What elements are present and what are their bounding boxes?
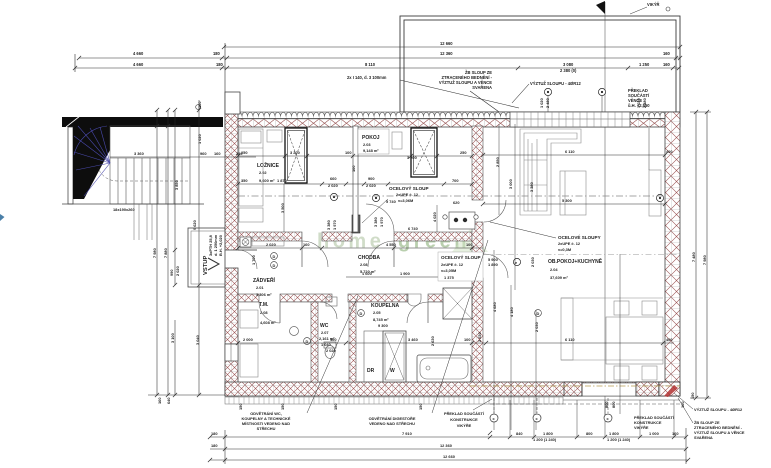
svg-text:1 600: 1 600: [362, 271, 372, 276]
svg-text:v=0,3M: v=0,3M: [558, 247, 571, 252]
washer W koupelna: [383, 331, 406, 382]
svg-text:800: 800: [604, 402, 609, 409]
door wc: [320, 302, 337, 319]
axis dash line lower: [483, 254, 680, 256]
svg-text:150: 150: [333, 404, 338, 411]
svg-text:1 200 (1 240): 1 200 (1 240): [533, 437, 557, 442]
door pokoj: [366, 204, 394, 232]
stair dim line: [110, 156, 256, 158]
svg-text:2.05: 2.05: [373, 310, 381, 315]
door tm: [259, 302, 280, 323]
svg-text:1 000: 1 000: [649, 431, 659, 436]
svg-text:100: 100: [464, 337, 471, 342]
watermark home green: [317, 231, 470, 253]
dormer window band in top wall: [510, 112, 630, 127]
room obyvak: [548, 257, 603, 280]
svg-text:D: D: [273, 263, 276, 268]
building corner box above wall: [225, 92, 240, 114]
vstup chevron: [208, 258, 219, 270]
bottom wall gap terrace: [582, 383, 636, 396]
paving band below wall: [225, 397, 563, 404]
svg-text:150: 150: [238, 404, 243, 411]
bed loznice: [239, 129, 263, 206]
stair left wall: [68, 127, 73, 204]
svg-text:VÝZTUŽ SLOUPU - 4ØR12: VÝZTUŽ SLOUPU - 4ØR12: [530, 81, 581, 86]
dryer DR: [364, 331, 383, 382]
svg-text:OB.POKOJ+KUCHYNĚ: OB.POKOJ+KUCHYNĚ: [548, 257, 603, 265]
svg-text:660: 660: [330, 176, 337, 181]
north arrow flag: [596, 1, 605, 14]
svg-text:180: 180: [211, 443, 218, 448]
svg-text:18x190x260: 18x190x260: [113, 207, 135, 212]
svg-text:4 180: 4 180: [509, 307, 514, 317]
svg-text:12 360: 12 360: [440, 51, 453, 56]
watermark blue mark left edge: [0, 214, 5, 221]
svg-text:160: 160: [663, 62, 671, 67]
svg-text:1 200 (1 240): 1 200 (1 240): [607, 437, 631, 442]
wall H1 rooms/hall: [238, 232, 302, 241]
bottom outer line: [563, 399, 680, 401]
bottom wall pillar blocks: [564, 382, 582, 396]
cabinet pokoj: [392, 132, 402, 149]
svg-text:840: 840: [516, 431, 523, 436]
ochre axis dash line: [470, 385, 680, 387]
boiler tm: [290, 327, 299, 336]
small interior dim verticals: [284, 124, 649, 430]
extension verticals: [74, 54, 76, 72]
dormer centerline: [604, 2, 606, 418]
door koupelna: [407, 302, 428, 323]
corner red stripe: [664, 385, 678, 397]
room chodba: [358, 255, 380, 274]
svg-text:5 300: 5 300: [562, 198, 572, 203]
window W2 pokoj: [411, 128, 437, 177]
svg-text:12 360: 12 360: [440, 443, 452, 448]
toilet wc: [325, 346, 335, 359]
svg-text:2xUPE č. 12: 2xUPE č. 12: [396, 192, 419, 197]
bottom wall: [225, 382, 680, 396]
svg-text:4 660: 4 660: [133, 51, 144, 56]
svg-text:2 020: 2 020: [366, 183, 376, 188]
door chodba-pokoj side: [368, 241, 394, 267]
svg-text:W: W: [390, 368, 395, 374]
kitchen counter right: [649, 170, 661, 216]
door obyvak lower: [484, 254, 508, 278]
svg-text:180: 180: [213, 51, 221, 56]
entry door arc: [238, 250, 257, 269]
svg-text:2.04: 2.04: [550, 267, 558, 272]
svg-text:3 000: 3 000: [508, 179, 513, 189]
svg-text:2 030: 2 030: [534, 322, 539, 332]
rotated interior dims: [251, 157, 539, 346]
room tm: [259, 302, 276, 325]
svg-text:2 630: 2 630: [477, 332, 482, 342]
stair bottom line: [62, 203, 204, 205]
counter zadveri top: [252, 237, 284, 246]
top wall scallop row: [225, 112, 680, 119]
svg-text:1 250: 1 250: [639, 62, 650, 67]
window W1 loznice: [285, 128, 307, 183]
svg-text:VEDENO NAD STŘECHU: VEDENO NAD STŘECHU: [369, 421, 415, 426]
column symbol top 2: [598, 88, 605, 95]
svg-text:WC: WC: [320, 323, 329, 329]
svg-text:DR: DR: [367, 368, 375, 374]
svg-text:3 500: 3 500: [280, 203, 285, 213]
sink cabinet zadveri: [240, 237, 251, 247]
dining table: [606, 317, 663, 364]
stair treads: [118, 158, 182, 204]
svg-text:900: 900: [368, 176, 375, 181]
svg-text:7 980: 7 980: [152, 248, 157, 258]
svg-text:160: 160: [663, 51, 671, 56]
window in left wall: [225, 344, 238, 361]
coffee table obyvak: [560, 171, 586, 215]
washbasin wc: [326, 297, 337, 306]
svg-text:2 020: 2 020: [328, 183, 338, 188]
svg-text:800: 800: [586, 431, 593, 436]
svg-text:3 080: 3 080: [563, 62, 574, 67]
svg-text:150: 150: [418, 404, 423, 411]
svg-text:3 380: 3 380: [326, 220, 331, 230]
sofa obyvak L-shape: [520, 129, 581, 215]
svg-text:150: 150: [690, 393, 695, 400]
svg-text:1 700: 1 700: [251, 255, 256, 265]
svg-text:180: 180: [211, 431, 218, 436]
svg-text:1 870: 1 870: [277, 178, 287, 183]
svg-text:4 680: 4 680: [492, 302, 497, 312]
svg-text:3 460: 3 460: [408, 337, 418, 342]
svg-text:v=3,05M: v=3,05M: [441, 268, 456, 273]
svg-text:4 020: 4 020: [432, 212, 437, 222]
svg-text:1 800: 1 800: [543, 431, 553, 436]
svg-text:2 480: 2 480: [545, 98, 550, 108]
svg-text:2.03: 2.03: [363, 142, 371, 147]
svg-text:3 380: 3 380: [373, 217, 378, 227]
lines below stair: [134, 204, 152, 240]
svg-text:160: 160: [157, 398, 162, 405]
kitchen top edge lines: [561, 297, 663, 299]
svg-text:1 020: 1 020: [197, 134, 202, 144]
svg-text:620: 620: [453, 200, 460, 205]
svg-text:VIKÝŘ: VIKÝŘ: [647, 2, 660, 7]
svg-text:7 480: 7 480: [691, 252, 696, 262]
stair black wedge: [73, 127, 110, 199]
svg-text:9 620: 9 620: [192, 220, 197, 230]
left wall upper: [225, 112, 238, 250]
svg-text:6 110: 6 110: [565, 149, 575, 154]
svg-text:4 660: 4 660: [133, 62, 144, 67]
bottom right dim extension verticals: [510, 400, 674, 437]
svg-text:250: 250: [460, 150, 467, 155]
svg-text:3 200: 3 200: [290, 150, 300, 155]
svg-text:9,148 m²: 9,148 m²: [363, 148, 379, 153]
top wall hatch row: [225, 119, 680, 128]
kitchen island: [561, 298, 573, 360]
svg-text:1 890: 1 890: [488, 262, 498, 267]
svg-text:350: 350: [241, 178, 248, 183]
svg-text:640: 640: [166, 398, 171, 405]
svg-text:400: 400: [666, 337, 673, 342]
svg-text:8,745 m²: 8,745 m²: [373, 317, 389, 322]
door obyvak upper: [484, 200, 506, 222]
svg-text:800: 800: [611, 402, 616, 409]
svg-text:KOUPELNA: KOUPELNA: [371, 303, 399, 309]
svg-text:VÝZTUŽ SLOUPU - 4ØR12: VÝZTUŽ SLOUPU - 4ØR12: [694, 407, 743, 412]
wall V2 central vertical: [472, 126, 483, 200]
bathtub: [417, 355, 471, 382]
stair tread box: [110, 126, 190, 204]
washbasin koupelna: [407, 294, 421, 306]
annotation ZB sloup top: [439, 70, 493, 90]
svg-text:D: D: [273, 254, 276, 259]
annotation preklad right: [634, 415, 675, 430]
shower koupelna: [443, 288, 472, 319]
wall V1b tm/wc: [311, 302, 318, 382]
svg-text:2 850: 2 850: [495, 157, 500, 167]
stove hob: [449, 212, 475, 229]
entry canopy: [188, 228, 225, 287]
column symbol top 1: [544, 88, 551, 95]
svg-text:2 020: 2 020: [266, 242, 276, 247]
left wall lower: [225, 268, 238, 396]
stair walk line dashed: [98, 168, 188, 181]
steel column block in H1: [352, 215, 360, 233]
svg-text:9,600 m²: 9,600 m²: [259, 178, 275, 183]
svg-text:3 100: 3 100: [170, 333, 175, 343]
room wc: [319, 323, 335, 347]
svg-text:ZÁDVEŘÍ: ZÁDVEŘÍ: [253, 276, 276, 284]
svg-text:OCELOVÝ SLOUP: OCELOVÝ SLOUP: [441, 254, 481, 260]
svg-text:2.01: 2.01: [256, 285, 264, 290]
svg-text:160: 160: [214, 151, 221, 156]
svg-text:1 800: 1 800: [609, 431, 619, 436]
svg-text:400: 400: [666, 149, 673, 154]
svg-text:990: 990: [169, 270, 174, 277]
annotation preklad vence: [628, 88, 650, 108]
svg-text:160: 160: [672, 431, 679, 436]
room zadveri: [253, 276, 276, 297]
svg-text:6 110: 6 110: [565, 337, 575, 342]
svg-text:CHODBA: CHODBA: [358, 255, 380, 261]
svg-text:7 880: 7 880: [163, 248, 168, 258]
bottom annotation bubbles: [494, 398, 608, 413]
rotated annotation PTH: [192, 220, 223, 256]
svg-text:160: 160: [303, 242, 310, 247]
svg-text:700: 700: [452, 178, 459, 183]
svg-text:6 740: 6 740: [408, 226, 418, 231]
svg-text:960: 960: [200, 151, 207, 156]
svg-text:v=3,06M: v=3,06M: [398, 198, 413, 203]
wall V3 wc/koupelna: [349, 302, 356, 382]
svg-text:2 630: 2 630: [430, 336, 435, 346]
svg-text:12 660: 12 660: [443, 454, 455, 459]
roof outline inner: [404, 20, 676, 112]
wall V1 loznice/pokoj: [353, 126, 358, 232]
svg-text:2 380 (0): 2 380 (0): [560, 68, 577, 73]
svg-text:12 660: 12 660: [440, 41, 453, 46]
svg-text:2.07: 2.07: [321, 330, 329, 335]
svg-text:100: 100: [351, 166, 356, 173]
svg-text:D: D: [537, 311, 540, 316]
svg-text:PŘEKLAD SOUČÁSTÍ: PŘEKLAD SOUČÁSTÍ: [444, 411, 485, 416]
stair top black bar: [62, 117, 223, 127]
svg-text:STŘECHU: STŘECHU: [257, 426, 276, 431]
svg-text:3 360: 3 360: [134, 151, 144, 156]
roof outline outer: [400, 16, 680, 112]
svg-text:9 300: 9 300: [378, 323, 388, 328]
svg-text:37,609 m²: 37,609 m²: [550, 275, 568, 280]
svg-text:SVAŘENA: SVAŘENA: [694, 435, 713, 440]
svg-text:1 970: 1 970: [379, 217, 384, 227]
svg-text:100: 100: [345, 150, 352, 155]
svg-text:7 980: 7 980: [702, 255, 707, 265]
room loznice: [257, 161, 280, 183]
svg-text:SVAŘENA: SVAŘENA: [472, 85, 492, 90]
svg-text:2.08: 2.08: [260, 310, 268, 315]
svg-text:8 110: 8 110: [365, 62, 376, 67]
room koupelna: [371, 303, 399, 328]
svg-text:150: 150: [280, 404, 285, 411]
svg-text:2xUPE č. 12: 2xUPE č. 12: [558, 241, 581, 246]
top dim line 3: [75, 67, 680, 69]
svg-text:7 910: 7 910: [402, 431, 412, 436]
svg-text:KONSTRUKCE: KONSTRUKCE: [450, 417, 478, 422]
wall H2 hall/bottom rooms: [238, 294, 259, 302]
svg-text:1 970: 1 970: [332, 220, 337, 230]
svg-text:2 030: 2 030: [530, 257, 535, 267]
svg-text:1 900: 1 900: [400, 271, 410, 276]
top dim line 12660: [224, 46, 680, 48]
cabinet tm lower: [240, 344, 258, 377]
svg-text:2 020: 2 020: [175, 266, 180, 276]
svg-text:1 375: 1 375: [444, 275, 455, 280]
svg-text:1 020: 1 020: [539, 98, 544, 108]
top dim line 2: [79, 57, 680, 59]
svg-text:160: 160: [197, 102, 202, 109]
svg-text:T.M.: T.M.: [259, 302, 269, 308]
svg-text:POKOJ: POKOJ: [362, 135, 380, 141]
svg-text:2xUPE č. 12: 2xUPE č. 12: [441, 262, 464, 267]
stair winder fan blue: [74, 126, 110, 196]
svg-text:100: 100: [466, 242, 473, 247]
svg-text:180: 180: [216, 62, 224, 67]
svg-text:4 550: 4 550: [386, 242, 396, 247]
cabinet tm upper: [240, 310, 258, 328]
svg-text:LOŽNICE: LOŽNICE: [257, 161, 280, 169]
svg-text:OCELOVÝ SLOUP: OCELOVÝ SLOUP: [389, 185, 429, 191]
door bubbles: [271, 253, 278, 260]
svg-text:2x I 140, d. 3 100mm: 2x I 140, d. 3 100mm: [347, 75, 387, 80]
svg-text:3 380: 3 380: [529, 182, 534, 192]
right wall: [665, 112, 680, 396]
svg-text:3,306 m²: 3,306 m²: [256, 292, 272, 297]
door zadveri-chodba: [302, 241, 328, 267]
room pokoj: [358, 129, 389, 154]
dim line circle symbol: [196, 105, 201, 110]
svg-text:2.08: 2.08: [360, 262, 368, 267]
svg-text:3 040: 3 040: [195, 335, 200, 345]
svg-text:250: 250: [241, 150, 248, 155]
svg-text:100: 100: [330, 337, 337, 342]
svg-text:OCELOVÉ SLOUPY: OCELOVÉ SLOUPY: [558, 233, 601, 240]
svg-text:VIKÝŘE: VIKÝŘE: [457, 423, 472, 428]
watermark leaf triangle: [452, 229, 488, 252]
tiny rotated sill labels: [539, 98, 647, 108]
svg-text:B.H. +2,020: B.H. +2,020: [218, 235, 223, 256]
svg-text:3 200: 3 200: [407, 155, 417, 160]
svg-text:2 000: 2 000: [243, 337, 253, 342]
svg-text:D: D: [360, 311, 363, 316]
svg-text:4,608 m²: 4,608 m²: [260, 320, 276, 325]
svg-text:ů.H. +2,550: ů.H. +2,550: [628, 103, 650, 108]
tiny 150 labels below wall: [238, 402, 685, 411]
svg-text:VIKÝŘE: VIKÝŘE: [634, 425, 649, 430]
